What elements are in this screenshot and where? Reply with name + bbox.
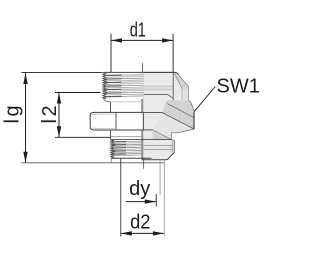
svg-text:lg: lg [1, 103, 23, 124]
svg-text:SW1: SW1 [217, 76, 260, 98]
svg-text:d2: d2 [130, 211, 150, 233]
svg-text:d1: d1 [130, 20, 146, 42]
svg-text:dy: dy [129, 178, 150, 200]
svg-text:l2: l2 [39, 103, 61, 124]
